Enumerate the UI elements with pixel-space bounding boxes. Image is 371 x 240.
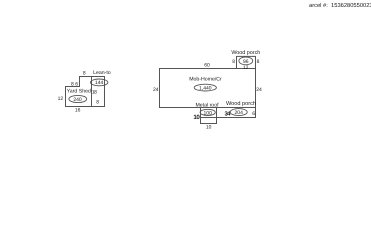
svg-text:18: 18: [92, 90, 97, 96]
svg-text:arcel #: 1536280550023: arcel #: 1536280550023: [309, 2, 371, 9]
svg-text:8: 8: [83, 70, 86, 76]
svg-text:10: 10: [193, 114, 200, 121]
area ellipse 240: [69, 95, 87, 102]
svg-text:12: 12: [243, 65, 249, 71]
svg-text:8: 8: [96, 99, 99, 105]
svg-text:144: 144: [95, 80, 104, 86]
lean-to divider wall: [91, 77, 93, 107]
svg-text:Wood porch: Wood porch: [231, 50, 260, 56]
mobile home outline: [160, 69, 256, 108]
area ellipse 204: [230, 109, 247, 116]
wood porch bottom strip outline: [201, 108, 256, 118]
svg-text:204: 204: [235, 110, 244, 116]
svg-text:Metal roof: Metal roof: [195, 102, 219, 108]
svg-text:12: 12: [58, 96, 64, 102]
area ellipse 100: [200, 109, 215, 115]
yard shed / lean-to outline: [66, 77, 105, 107]
svg-text:Lean-to: Lean-to: [93, 70, 111, 76]
svg-text:24: 24: [153, 87, 159, 93]
area ellipse 144: [91, 79, 108, 86]
svg-text:24: 24: [256, 87, 262, 93]
svg-text:96: 96: [243, 59, 249, 65]
svg-text:60: 60: [204, 62, 210, 68]
svg-text:Mob-Home/Cr: Mob-Home/Cr: [189, 77, 222, 83]
area ellipse 1,440: [194, 84, 216, 91]
svg-text:8: 8: [232, 59, 235, 65]
svg-text:6: 6: [75, 81, 78, 87]
area ellipse 96: [239, 57, 253, 65]
wood porch top outline: [237, 56, 256, 68]
svg-text:1,440: 1,440: [199, 86, 212, 92]
svg-text:10: 10: [206, 124, 212, 130]
svg-text:100: 100: [204, 111, 213, 117]
svg-text:240: 240: [73, 97, 82, 103]
svg-text:8: 8: [257, 59, 260, 65]
svg-text:6: 6: [252, 111, 255, 117]
svg-text:Yard Shed: Yard Shed: [67, 88, 91, 94]
metal roof outline: [201, 108, 217, 124]
svg-text:16: 16: [75, 107, 81, 113]
svg-text:8: 8: [71, 81, 74, 87]
svg-text:Wood porch: Wood porch: [226, 100, 256, 107]
